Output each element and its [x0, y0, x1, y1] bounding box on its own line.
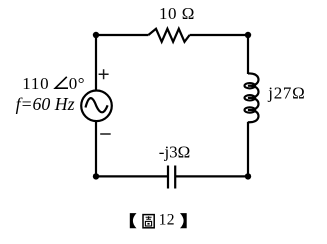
capacitor C (-j3 ohm) left plate — [167, 166, 169, 189]
inductor L (j27 ohm) bumps — [248, 73, 259, 122]
polarity minus — [100, 133, 111, 135]
wire bottom-right segment — [175, 175, 248, 177]
node dot top-right — [245, 32, 251, 38]
angle symbol — [55, 77, 68, 88]
caption glyph tu (figure) outer box — [143, 215, 154, 228]
caption glyph tu inner dot — [147, 223, 149, 225]
caption left lenticular bracket — [130, 213, 137, 228]
inductor back-loop 3 — [245, 107, 256, 112]
source V1 circle — [81, 91, 112, 122]
svg-text:110: 110 — [22, 74, 49, 93]
svg-text:0°: 0° — [69, 74, 85, 93]
wire left upper segment — [95, 35, 97, 90]
node dot top-left — [93, 32, 99, 38]
wire right lower segment — [247, 122, 249, 177]
svg-text:-j3Ω: -j3Ω — [159, 143, 191, 162]
source V1 sine wave — [86, 98, 108, 112]
caption glyph tu inner bottom box — [145, 221, 151, 226]
capacitor C (-j3 ohm) right plate — [174, 166, 176, 189]
node dot bottom-left — [93, 173, 99, 179]
svg-text:f=60 Hz: f=60 Hz — [16, 94, 75, 114]
svg-text:12: 12 — [159, 212, 175, 229]
resistor R (10 ohm) zigzag — [148, 29, 189, 42]
wire right upper segment — [247, 35, 249, 74]
wire bottom-left segment — [96, 175, 168, 177]
wire top-left segment — [96, 34, 148, 36]
wire top-right segment — [190, 34, 248, 36]
svg-text:j27Ω: j27Ω — [267, 84, 305, 103]
wire left lower segment — [95, 122, 97, 177]
node dot bottom-right — [245, 173, 251, 179]
svg-text:10 Ω: 10 Ω — [159, 4, 195, 23]
polarity plus — [99, 69, 109, 79]
inductor back-loop 1 — [245, 83, 256, 88]
caption right lenticular bracket — [180, 213, 187, 228]
caption glyph tu inner top strokes — [146, 216, 152, 219]
inductor back-loop 2 — [245, 95, 256, 100]
